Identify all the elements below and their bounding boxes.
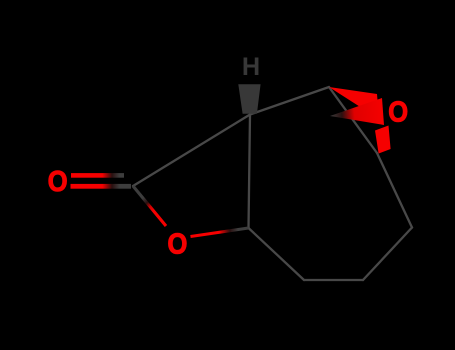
svg-text:O: O [388,95,408,128]
wire: bond C4-C5 [329,87,377,153]
wire: bond C3a-C4 [250,87,329,115]
wire: bond C5-C6 [377,153,412,228]
carbonyl double bond C2=O bottom line [71,184,132,189]
wire: bond C7-C8 [304,279,363,281]
bond O1-C7a (gradient from red) [191,228,249,237]
wire: bond C8-C7a [249,228,305,280]
bond C2-O1 (gradient to red) [133,186,166,226]
wire: bond C3a-C7a [249,115,251,229]
wire: bond C2-C3a [133,115,250,187]
wire: bond C6-C7 [363,228,412,281]
bold wedge to epoxide O (lower) [330,98,384,125]
carbonyl double bond C2=O top line [71,173,124,178]
stereo wedge C3a-H [238,84,260,113]
thick bond epoxide O-C5 [375,126,391,154]
svg-text:H: H [242,53,260,81]
bold wedge C4 to epoxide O (upper) [329,87,379,119]
svg-text:O: O [48,165,68,198]
svg-text:O: O [167,227,187,260]
